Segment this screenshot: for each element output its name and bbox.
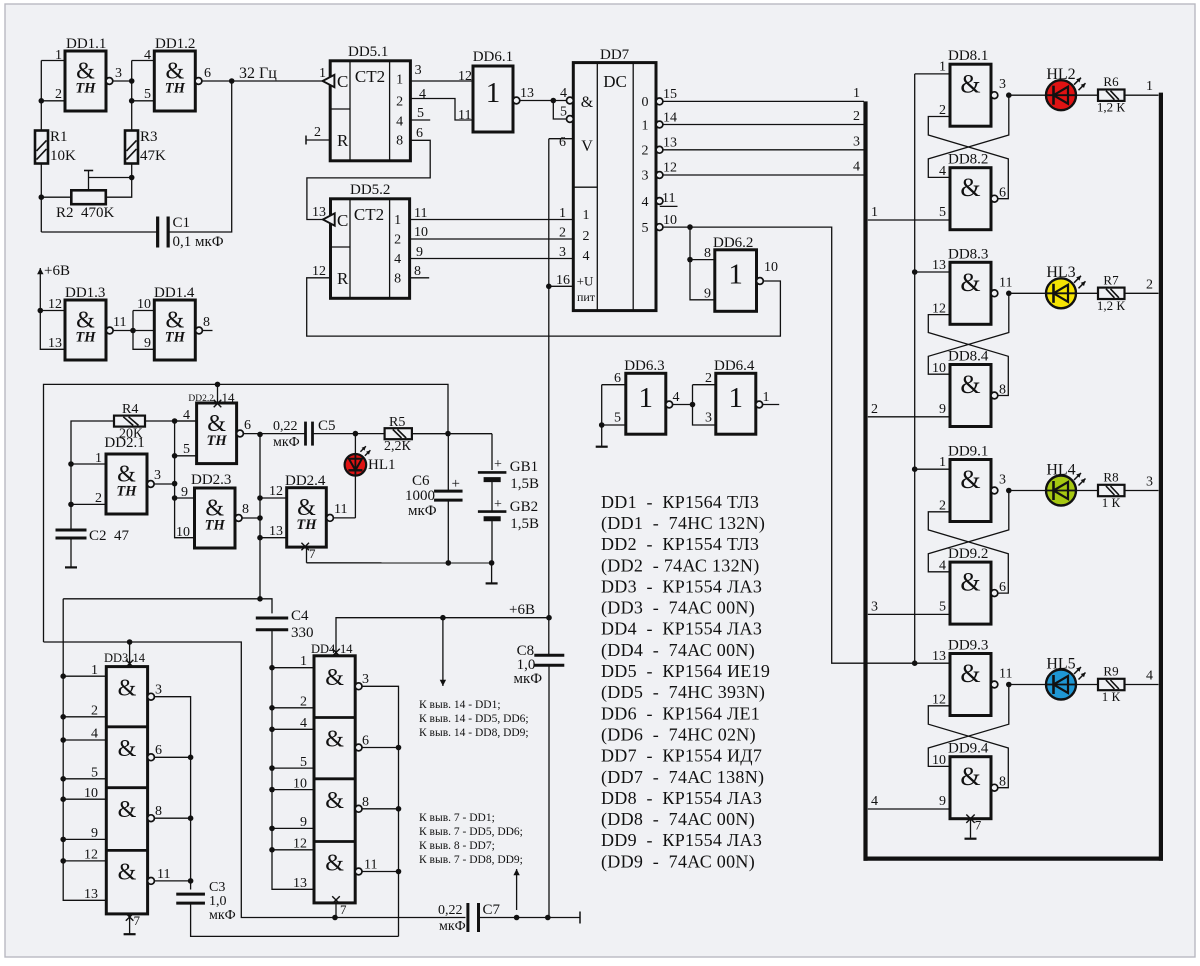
svg-text:3: 3 [999,77,1006,92]
svg-text:4: 4 [396,115,403,130]
wire R3 bottom [106,164,135,198]
pin 1 label DD9.1 [939,455,946,470]
counter DD5.2 [323,199,410,298]
wire DD9.3 out junction [1006,682,1012,688]
gate DD9.3 label [948,638,988,654]
pin 16 label DD7 [556,273,570,288]
wire DD2.4 pin13 [260,537,287,539]
wire DD1.4 input bus [133,311,154,350]
pin 11 label DD2.4 [334,502,347,517]
resistor R4 [114,416,145,427]
label C7 value [438,903,466,934]
pin 3 label DD2.1 [154,468,161,483]
svg-text:1: 1 [583,208,590,223]
pin 14 stub DD3 [126,642,134,667]
gate DD9.2 label [948,546,988,562]
pin 5 bubble DD7 [567,116,574,123]
capacitor C4 [256,618,288,630]
svg-text:1: 1 [319,66,326,81]
svg-text:R5: R5 [389,415,405,430]
wire LED to R6 [1076,94,1098,96]
wire R4 left [68,421,114,531]
pin 4 label DD8.2 [939,164,946,179]
net 1 label left [871,205,878,220]
wire cross DD9.3out to DD9.4in [928,685,1009,767]
svg-text:&: & [960,659,980,688]
svg-text:6: 6 [204,66,211,81]
svg-text:(DD6 - 74НС 02N): (DD6 - 74НС 02N) [601,724,756,745]
svg-text:3: 3 [155,683,162,698]
wire DD2.2 pin4 [175,420,197,422]
svg-text:4: 4 [560,86,567,101]
svg-text:4: 4 [642,195,649,210]
wire DD4 input bus [269,665,314,889]
svg-text:1,2 К: 1,2 К [1097,100,1126,115]
pin 6 label DD9.2 [999,580,1006,595]
svg-text:&: & [325,665,344,691]
svg-text:3: 3 [1146,475,1153,490]
pin 5 label DD6.3 [614,411,621,426]
pin 14 stub DD4 [332,649,340,657]
label R7 [1097,272,1126,313]
svg-text:12: 12 [48,297,62,312]
svg-text:4: 4 [394,252,401,267]
label C3 [209,880,236,923]
svg-text:1: 1 [939,455,946,470]
net 3 label right [1146,475,1153,490]
pin 10 label DD6.2 [764,260,778,275]
LED HL4 [1046,473,1086,506]
svg-text:R3: R3 [140,129,158,145]
wire DD7 out1 net2 [663,124,864,126]
svg-text:DD6.3: DD6.3 [624,358,664,374]
pin 3 label DD8.1 [999,77,1006,92]
svg-text:&: & [960,268,980,297]
svg-text:R6: R6 [1103,74,1119,89]
svg-text:4: 4 [583,249,590,264]
bubble DD7 out5 [656,224,663,231]
pin 4 label DD9.2 [939,559,946,574]
svg-text:9: 9 [939,402,946,417]
gate DD8.1 [950,64,998,126]
svg-text:2: 2 [1146,277,1153,292]
svg-text:11: 11 [334,502,347,517]
gate DD8.3 [950,262,998,324]
gate DD2.3 label [191,472,231,488]
pin 12 label DD8.3 [932,301,946,316]
pin 4 label DD5.1 [419,87,426,102]
pin 4 bubble DD7 [567,97,574,104]
svg-text:DD3 - КР1554 ЛА3: DD3 - КР1554 ЛА3 [601,576,762,596]
power +6V label right [509,602,535,618]
pin 8 label DD2.3 [242,502,249,517]
wire DD2.4 input vertical [257,432,263,602]
power +6V arrow left [37,268,43,288]
svg-text:1: 1 [396,73,403,88]
net 1 label right [1146,79,1153,94]
wire DD1.2 input bus [129,61,154,131]
svg-text:DD9.4: DD9.4 [948,741,989,757]
wire DD6.4 inputs [693,385,716,425]
svg-text:1,2 К: 1,2 К [1097,298,1126,313]
pin 5 label DD8.2 [939,205,946,220]
bus bottom horizontal [864,856,1164,860]
svg-text:1: 1 [853,86,860,101]
pin 3 label DD9.1 [999,473,1006,488]
pin 10 label DD5.2 [414,225,428,240]
label R6 [1097,74,1126,115]
svg-text:1: 1 [728,259,743,291]
label R2 [56,205,115,221]
gate DD8.2 label [948,152,988,168]
battery GB2 [478,512,507,519]
pin 7 label DD3 [134,913,141,928]
svg-text:10: 10 [414,225,428,240]
wire DD5.1 R stub pin2 [306,136,330,145]
svg-text:0,22: 0,22 [273,419,298,434]
label C8 [514,643,543,687]
svg-text:3: 3 [705,411,712,426]
wire DD8.1 input1 [915,73,950,75]
svg-text:11: 11 [414,206,427,221]
wire DD9.3 input1 [915,662,950,664]
pin 12 label DD6.1 [458,69,472,84]
annotation text pins14 [419,699,529,739]
gate DD9.3 [950,654,998,716]
pin 11 label DD8.3 [999,275,1012,290]
svg-text:1: 1 [939,60,946,75]
svg-text:8: 8 [396,134,403,149]
svg-text:10: 10 [764,260,778,275]
pin 5 label DD7 [560,105,567,120]
gate DD6.4 [716,373,763,434]
svg-text:0,1 мкФ: 0,1 мкФ [173,234,224,250]
pin 11 label DD1.3 [113,315,126,330]
wire GB2 bottom [489,520,495,566]
pin 13 label DD6.1 [520,86,534,101]
pin 5 label DD2.2 [183,442,190,457]
pin 2 label DD7 [559,226,566,241]
svg-text:C1: C1 [173,215,191,231]
svg-text:1: 1 [729,382,744,414]
svg-text:C4: C4 [291,608,309,624]
pin 6 label DD2.2 [244,418,251,433]
wire DD6.1 out to DD7 pin5 [553,101,567,120]
gate DD1.2 label [155,36,195,52]
gate DD4 label [311,642,353,656]
svg-text:мкФ: мкФ [273,435,300,450]
wire +6V rail upper [44,382,449,642]
label R9 [1102,664,1121,705]
gate DD2.4 label [285,473,326,489]
svg-text:К выв. 14 - DD8, DD9;: К выв. 14 - DD8, DD9; [419,727,529,739]
svg-text:5: 5 [642,221,649,236]
svg-text:2: 2 [396,95,403,110]
svg-text:11: 11 [458,108,471,123]
svg-text:DD4 - КР1554 ЛА3: DD4 - КР1554 ЛА3 [601,619,762,639]
svg-text:DD5 - КР1564 ИЕ19: DD5 - КР1564 ИЕ19 [601,661,770,681]
gate DD1.1 label [66,36,106,52]
pin 6 label DD6.3 [614,371,621,386]
gate DD1.4 label [154,285,195,301]
svg-text:2: 2 [559,226,566,241]
gate DD6.4 label [714,358,755,374]
svg-text:7: 7 [975,818,982,833]
gate DD1.2 [154,51,202,111]
label C5 [318,418,336,434]
wire DD1.1 out to DD1.2 [113,78,135,84]
gate DD9.1 label [948,444,988,460]
svg-text:DD8 - КР1554 ЛА3: DD8 - КР1554 ЛА3 [601,788,762,808]
svg-text:8: 8 [704,246,711,261]
svg-text:R7: R7 [1103,272,1119,287]
svg-text:(DD3 - 74АС 00N): (DD3 - 74АС 00N) [601,598,755,619]
wire rail to C4 [63,599,272,614]
pin 1 label DD1.1 [55,48,62,63]
svg-text:R: R [337,131,349,150]
svg-text:мкФ: мкФ [209,908,236,923]
svg-text:(DD7 - 74АС 138N): (DD7 - 74АС 138N) [601,767,764,788]
gate DD4 box [314,656,355,903]
net 4 label right [1146,669,1153,684]
pin 2 label DD9.1 [939,499,946,514]
pin 8 label DD5.2 [414,264,421,279]
svg-text:13: 13 [312,205,326,220]
wire bus to DD9.2 input [868,613,950,615]
pin 9 label DD6.2 [704,287,711,302]
wire DD2.2 pin5 [175,455,197,457]
svg-text:DD2 - КР1554 ТЛ3: DD2 - КР1554 ТЛ3 [601,534,759,554]
svg-text:ТН: ТН [165,81,186,97]
pin 10 label DD1.4 [137,297,151,312]
svg-text:3: 3 [871,599,878,614]
pin 10 label DD2.3 [176,525,190,540]
svg-text:4: 4 [853,160,860,175]
svg-text:11: 11 [157,867,170,882]
wire LED to R9 [1076,684,1098,686]
svg-text:0: 0 [642,95,649,110]
gate DD1.3 label [65,285,105,301]
resistor R6 [1098,90,1125,101]
svg-text:ТН: ТН [116,484,137,500]
gate DD8.4 label [948,349,989,365]
svg-text:13: 13 [932,649,946,664]
svg-text:9: 9 [416,245,423,260]
pin 13 label DD5.2 [312,205,326,220]
capacitor C7 [468,903,479,932]
wire DD7 out3 net4 [663,174,864,176]
wire DD2.3 out [242,515,263,521]
svg-text:3: 3 [999,473,1006,488]
svg-text:1,5В: 1,5В [510,476,539,492]
svg-text:&: & [960,465,980,494]
wires DD4 input pins [272,668,314,850]
resistor R1 [35,131,48,164]
svg-text:V: V [581,138,593,155]
wire DD5.2 out2 pin10 to DD7 [410,238,574,240]
pin 5 label DD9.2 [939,599,946,614]
wire R2 left [41,196,71,198]
svg-text:DC: DC [603,72,627,91]
node 32 Hz label [239,65,277,82]
annotation arrow up [513,869,519,910]
svg-text:C6: C6 [412,473,430,489]
wire bus to DD8.2 input [868,219,950,221]
svg-text:2: 2 [55,87,62,102]
LED HL4 label [1046,461,1075,478]
svg-text:6: 6 [559,135,566,150]
wire C6 top [447,434,449,491]
pin 1 label DD2.1 [95,451,102,466]
wire DD5.1 out1 pin3 [410,80,473,82]
pin 13 label DD1.3 [48,336,62,351]
wire cross DD8.3in2 to DD8.4out [928,315,1008,396]
svg-text:ТН: ТН [75,81,96,97]
counter DD5.2 label [350,182,390,198]
pin 4 label DD1.2 [144,48,151,63]
svg-text:+6В: +6В [509,602,535,618]
svg-text:DD8.1: DD8.1 [948,48,988,64]
bubble DD3 out11 [148,878,155,885]
svg-text:14: 14 [663,111,677,126]
svg-text:R1: R1 [50,129,68,145]
parts list text [601,492,770,873]
svg-text:C2 47: C2 47 [89,528,130,544]
net 2 label right [1146,277,1153,292]
pin 14 label DD7 [663,111,677,126]
label C4 [291,608,314,641]
wire +6V rail to DD4 [336,615,552,656]
svg-text:1: 1 [763,390,770,405]
pin 8 label DD9.4 [999,775,1006,790]
svg-text:1: 1 [639,382,654,414]
svg-text:6: 6 [244,418,251,433]
svg-text:11: 11 [999,667,1012,682]
wire DD1.1 pin2 left bus [39,61,66,131]
bubble DD4 out3 [355,683,362,690]
pin 9 label DD1.4 [144,336,151,351]
wire bus to DD9.4 input [868,808,950,810]
wire LED to R8 [1076,490,1098,492]
pin 8 label DD1.4 [203,315,210,330]
label R8 [1102,470,1121,511]
resistor R7 [1098,288,1125,299]
pin 3 label DD5.1 [415,63,422,78]
svg-text:1: 1 [559,206,566,221]
svg-text:DD1 - КР1564 ТЛ3: DD1 - КР1564 ТЛ3 [601,492,759,512]
wire DD7 V input [549,138,574,140]
wire DD6.1 out [520,98,570,104]
svg-text:4: 4 [871,794,878,809]
bubble DD7 out1 [656,121,663,128]
wire DD9.1 input1 [915,468,950,470]
svg-text:8: 8 [414,264,421,279]
svg-text:4: 4 [91,727,98,742]
pin 8 label DD8.4 [999,383,1006,398]
bus right vertical [1159,93,1163,861]
svg-text:C7: C7 [483,902,501,918]
svg-text:5: 5 [939,205,946,220]
pin 1 label DD8.1 [939,60,946,75]
label GB2 [494,497,539,532]
wire DD4 output bus [362,686,401,936]
wire C3 bottom [191,903,399,936]
svg-text:&: & [960,762,980,791]
pin 7 mark DD3 [124,913,136,934]
svg-text:3: 3 [415,63,422,78]
gate DD3 label [104,651,146,665]
net 2 label top [853,109,860,124]
wire GB2 ground stub [486,563,498,584]
svg-text:DD9 - КР1554 ЛА3: DD9 - КР1554 ЛА3 [601,830,762,850]
label R1 [50,129,76,164]
pin 2 label DD1.1 [55,87,62,102]
wire cross DD9.3in2 to DD9.4out [928,706,1008,788]
svg-text:DD8.2: DD8.2 [948,152,988,168]
wire HL1 to DD2.4 out [333,476,355,518]
LED HL5 label [1046,655,1075,672]
pin 3 label DD7 [559,245,566,260]
wire DD7 out2 net3 [663,149,864,151]
gate DD8.2 [950,168,998,230]
svg-text:1000: 1000 [405,488,435,504]
resistor R3 [125,131,138,164]
svg-text:R: R [337,269,349,288]
svg-text:1,5В: 1,5В [510,516,539,532]
svg-text:DD9.3: DD9.3 [948,638,988,654]
gate DD9.4 label [948,741,989,757]
resistor R5 [385,428,412,439]
wire DD7 out5 [663,224,915,663]
svg-text:1: 1 [300,654,307,669]
wire DD2.4 pin12 [260,497,287,499]
svg-text:мкФ: мкФ [439,919,466,934]
svg-text:C: C [337,72,348,91]
svg-text:6: 6 [416,126,423,141]
svg-text:R8: R8 [1103,470,1118,485]
svg-text:47K: 47K [140,148,166,164]
svg-text:8: 8 [242,502,249,517]
wire R2 wiper tap [84,171,132,191]
pin 13 label DD9.3 [932,649,946,664]
svg-text:6: 6 [614,371,621,386]
power +6V label left [44,263,70,279]
svg-text:8: 8 [155,804,162,819]
pin 9 label DD8.4 [939,402,946,417]
svg-text:13: 13 [932,258,946,273]
svg-text:&: & [325,851,344,877]
svg-text:мкФ: мкФ [514,671,543,687]
wire DD1.4 out stub [202,330,212,332]
svg-text:5: 5 [560,105,567,120]
pin 2 label DD2.1 [95,491,102,506]
wire R7 to bus [1125,292,1159,294]
net 2 label left [871,402,878,417]
wire cross DD8.1in2 to DD8.2out [928,117,1008,199]
svg-text:&: & [960,70,980,99]
gate DD6.2 [715,250,764,311]
pin 12 label DD9.3 [932,693,946,708]
label R4 [119,402,143,442]
wire R1 bottom [39,164,45,233]
svg-text:DD2.1: DD2.1 [104,435,144,451]
pin 7 label DD9.4 [975,818,982,833]
pin 14 stub DD2.2 [214,384,222,407]
svg-text:(DD2 - 74АС 132N): (DD2 - 74АС 132N) [601,555,760,576]
svg-text:2: 2 [853,109,860,124]
gate DD6.2 label [713,235,753,251]
svg-text:32 Гц: 32 Гц [239,65,277,82]
